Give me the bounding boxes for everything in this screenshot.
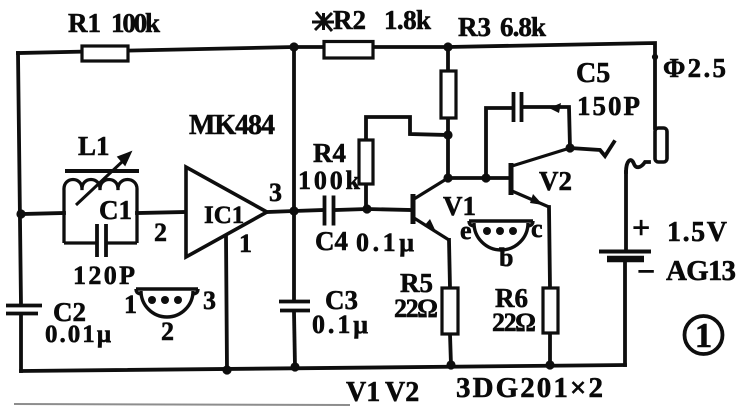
V2 emitter arrowhead: [530, 194, 543, 205]
svg-text:IC1: IC1: [204, 202, 244, 229]
resistor R6: [543, 288, 558, 333]
svg-text:1: 1: [695, 316, 713, 355]
capacitor C4 plates: [325, 196, 334, 226]
svg-text:V2: V2: [385, 377, 419, 408]
svg-text:c: c: [531, 214, 543, 243]
wire battery-to-jack hook: [626, 160, 649, 172]
resistor R3: [441, 71, 456, 118]
wire top rail: [18, 43, 655, 128]
svg-text:1.5V: 1.5V: [667, 217, 727, 248]
svg-text:0.1μ: 0.1μ: [356, 228, 414, 257]
wire C3 lower lead: [294, 312, 295, 367]
wire R5 bottom lead: [450, 334, 451, 365]
inductor L1 coil: [64, 180, 137, 244]
jack tip dot: [652, 54, 658, 60]
figure number circle 1: [685, 316, 723, 354]
tank bottom edge: [64, 241, 137, 244]
wire tank right connection to pin 2: [137, 212, 186, 213]
svg-text:3DG201×2: 3DG201×2: [456, 372, 603, 404]
wire pin 3 output: [267, 210, 323, 212]
svg-text:100k: 100k: [111, 8, 160, 38]
svg-text:AG13: AG13: [666, 255, 736, 287]
MK484 pinout dots: [148, 296, 182, 304]
resistor R1: [82, 46, 128, 61]
capacitor C5 plates: [514, 92, 522, 122]
svg-text:3: 3: [203, 286, 216, 315]
wire C5 right leg: [523, 107, 570, 148]
svg-text:3: 3: [269, 178, 282, 207]
svg-text:150P: 150P: [577, 91, 640, 121]
V1/V2 pinout symbol: [469, 221, 533, 250]
transistor Q2 V2: [511, 148, 570, 207]
wire battery positive lead: [624, 172, 628, 251]
svg-text:1.8k: 1.8k: [384, 5, 431, 35]
svg-text:R1: R1: [68, 8, 101, 38]
svg-text:C1: C1: [99, 195, 132, 225]
svg-text:e: e: [460, 216, 472, 245]
battery BT1 negative plate: [607, 256, 644, 263]
svg-text:L1: L1: [78, 131, 110, 161]
svg-text:V1: V1: [346, 377, 380, 408]
wire R4 bottom lead: [364, 184, 368, 209]
node junction dots: [16, 42, 574, 374]
svg-text:1: 1: [124, 290, 137, 319]
svg-text:2: 2: [161, 317, 174, 346]
svg-text:Φ2.5: Φ2.5: [663, 53, 726, 83]
wire V1 collector node to V2 base: [448, 176, 509, 180]
reference mark star for R2: [312, 12, 334, 31]
wire bottom rail: [21, 365, 625, 371]
wire tank left connection: [21, 213, 64, 214]
V1 emitter arrowhead: [424, 219, 437, 234]
svg-text:120P: 120P: [73, 261, 135, 290]
svg-text:22Ω: 22Ω: [394, 294, 438, 323]
wire V2 emitter to R6: [549, 207, 550, 288]
svg-text:C4: C4: [315, 226, 348, 256]
MK484 pinout symbol: [136, 289, 198, 317]
inductor L1 core bar: [65, 169, 139, 173]
wire center vertical from top rail: [292, 47, 296, 211]
svg-text:−: −: [637, 253, 655, 289]
svg-text:100k: 100k: [298, 166, 361, 195]
svg-text:MK484: MK484: [189, 110, 275, 141]
resistor R5: [442, 288, 458, 334]
svg-text:+: +: [632, 209, 650, 245]
svg-text:R3: R3: [458, 12, 491, 42]
wire V1 emitter to R5: [449, 240, 450, 288]
svg-text:R2: R2: [333, 5, 366, 35]
svg-text:C5: C5: [576, 58, 610, 89]
op-amp U1 IC1 triangle: [186, 167, 267, 257]
C5 feedback arrowhead: [549, 103, 561, 113]
wire C3 upper lead: [292, 211, 296, 300]
svg-text:b: b: [499, 243, 513, 272]
battery BT1 positive plate: [599, 250, 651, 254]
wire R3 top lead: [446, 47, 450, 71]
transistor Q1 V1: [413, 178, 449, 240]
wire R6 bottom lead: [548, 333, 552, 365]
svg-text:V2: V2: [539, 166, 572, 196]
svg-text:0.1μ: 0.1μ: [312, 310, 368, 339]
svg-text:R4: R4: [313, 138, 346, 168]
svg-text:2: 2: [154, 218, 167, 247]
wire C4 right to V1 base: [335, 209, 411, 210]
resistor R4: [359, 140, 373, 184]
resistor R2: [324, 42, 373, 59]
wire battery negative lead: [623, 261, 627, 365]
svg-text:22Ω: 22Ω: [492, 308, 536, 337]
wire C5 left leg: [486, 108, 512, 178]
svg-text:0.01μ: 0.01μ: [45, 321, 111, 348]
wire R3 bottom lead: [446, 118, 450, 178]
wire pin 1 to ground: [226, 236, 227, 370]
capacitor C1 plates: [97, 224, 106, 257]
svg-text:1: 1: [239, 229, 252, 258]
wire R4 top to R3 node: [366, 117, 448, 140]
earphone jack: [655, 128, 667, 162]
wire left rail upper: [18, 53, 21, 305]
inductor L1 tuning arrow: [76, 152, 131, 205]
scan artifact line: [14, 404, 350, 405]
wire V2 collector to jack with hook: [570, 142, 614, 156]
svg-text:6.8k: 6.8k: [500, 12, 546, 42]
V1/V2 pinout dots: [483, 227, 517, 235]
capacitor C2 plates: [6, 306, 42, 314]
wire left rail lower: [19, 314, 23, 371]
capacitor C3 plates: [279, 302, 310, 311]
